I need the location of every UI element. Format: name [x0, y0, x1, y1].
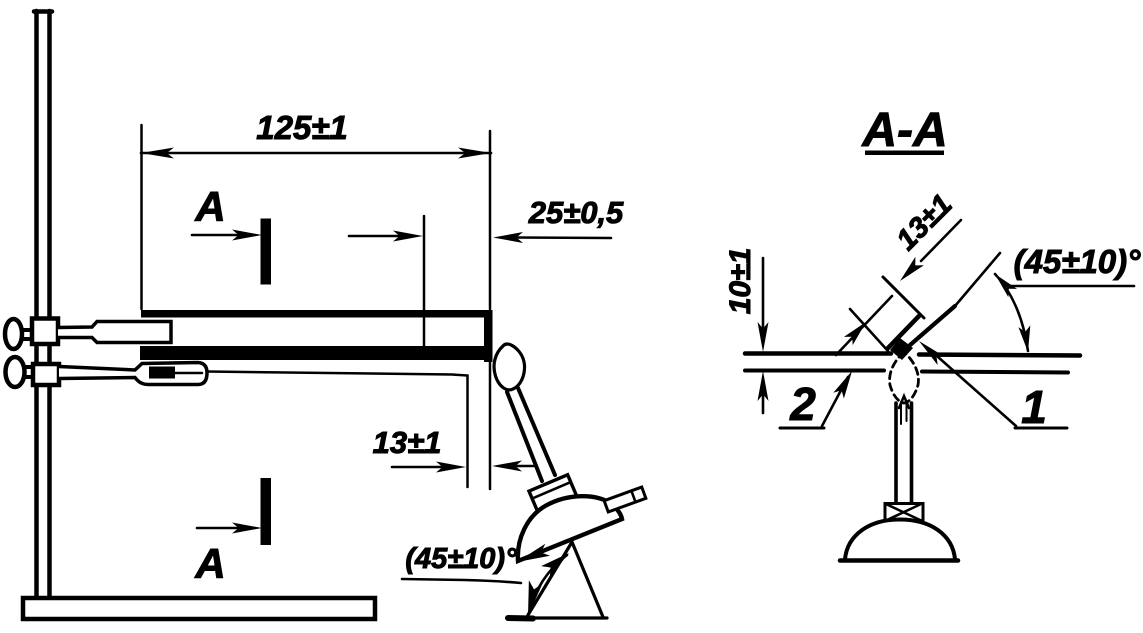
burner collar (A-A): [885, 504, 923, 521]
svg-text:125±1: 125±1: [256, 109, 348, 146]
dimension 13±1 (A-A) arrow from SW: [844, 322, 866, 345]
13±1 extension line through tube end (A-A): [883, 277, 924, 318]
svg-text:13±1: 13±1: [373, 425, 442, 460]
specimen section top line: [745, 354, 1080, 356]
section mark A (upper): arrow: [192, 234, 240, 237]
dimension 125±1 line: [141, 152, 491, 155]
svg-text:1: 1: [1021, 381, 1047, 433]
burner neck (left view): [507, 388, 555, 481]
svg-text:A: A: [194, 183, 225, 230]
burner spout (left view): [604, 487, 646, 512]
burner tube upper wall (A-A): [888, 316, 919, 348]
section mark A (lower): arrow: [197, 527, 240, 530]
13±1 extension line at tube mouth (A-A): [850, 309, 888, 351]
svg-text:A-A: A-A: [861, 104, 947, 157]
specimen holder right edge: [484, 310, 493, 362]
burner wick (A-A): [899, 396, 909, 408]
burner tube lower wall / axis line 45° (A-A): [902, 306, 955, 352]
svg-text:2: 2: [789, 378, 816, 430]
svg-text:(45±10)°: (45±10)°: [405, 543, 517, 575]
burner collar (left view): [529, 475, 577, 514]
dimension 10±1 line/arrows: [762, 258, 765, 329]
svg-text:10±1: 10±1: [724, 248, 757, 315]
burner base line (A-A): [840, 558, 958, 563]
burner body dome (A-A): [845, 520, 955, 560]
extension line (x424, 25 dim): [423, 216, 426, 349]
angle arc (A-A): [995, 274, 1028, 351]
burner wick inner (A-A): [901, 402, 907, 424]
specimen holder top plate: [141, 310, 491, 318]
angle (45±10)° leader (A-A): [1005, 285, 1134, 288]
support triangle: [509, 542, 607, 618]
clamp knob 1: [5, 319, 22, 349]
tube mouth blob (A-A): [890, 338, 913, 360]
clamp knob 2: [6, 357, 25, 387]
wire (L-shaped thin line): [207, 372, 468, 488]
specimen section bottom line: [745, 371, 1068, 373]
dimension 25±0,5 arrows: [349, 235, 400, 238]
section mark A (upper): thick bar: [261, 219, 272, 285]
label 1 leader: [938, 357, 1016, 426]
svg-text:A: A: [194, 540, 225, 587]
burner flame (left view): [494, 344, 524, 390]
clamp arm 1: [58, 322, 171, 343]
section mark A (lower): thick bar: [261, 478, 272, 545]
specimen (black bar): [140, 346, 492, 360]
burner wick tube (A-A): [896, 403, 912, 502]
svg-text:(45±10)°: (45±10)°: [1014, 243, 1142, 280]
stand base: [23, 598, 375, 619]
angle (45±10)° leader (left view): [402, 579, 521, 583]
label 2 leader: [822, 377, 848, 426]
svg-text:25±0,5: 25±0,5: [528, 195, 624, 230]
angle arc (left view): [529, 555, 567, 613]
burner flame dashed (A-A): [890, 352, 919, 403]
extension line right (x490): [489, 131, 492, 489]
chord arrow on burner body (left view): [517, 544, 550, 562]
dimension 13±1 (A-A) arrow from NE: [921, 220, 961, 261]
extension line left (x141): [140, 125, 143, 309]
burner body dome (left view): [518, 496, 622, 561]
clamp block 2: [33, 364, 59, 385]
dimension 13±1 (left view) arrows: [392, 466, 443, 469]
stand rod: [34, 11, 52, 599]
13±1 dimension line parallel to axis (A-A): [836, 296, 892, 355]
clamp block 1: [32, 319, 58, 345]
clamp arm 2 (fork): [59, 363, 207, 385]
